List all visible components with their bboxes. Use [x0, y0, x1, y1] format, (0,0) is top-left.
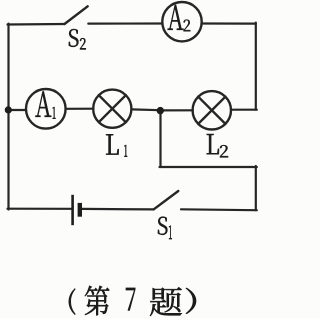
- battery cell long plate: [71, 195, 74, 225]
- label A2 letter A: [168, 5, 184, 30]
- label S2 subscript 2: [80, 38, 86, 49]
- wire right vertical lower: [255, 166, 257, 210]
- caption open parenthesis: [69, 289, 76, 315]
- label A2 subscript 2: [184, 20, 191, 32]
- wire L1 to node B: [131, 108, 160, 111]
- label A1 letter A: [35, 91, 51, 116]
- wire S1 to bottom right corner: [181, 208, 257, 211]
- label L1 subscript 1: [124, 145, 127, 157]
- label L1 letter L: [106, 134, 119, 154]
- node B junction dot: [157, 107, 164, 114]
- label A1 subscript 1: [53, 107, 56, 119]
- caption character Di: [85, 286, 110, 316]
- wire bottom left segment: [8, 208, 72, 210]
- ammeter A2 circle: [162, 2, 201, 41]
- lamp L2: [193, 91, 231, 129]
- caption close parenthesis: [186, 288, 196, 314]
- node A junction dot: [5, 106, 12, 113]
- caption digit 7: [126, 288, 135, 311]
- battery cell short plate: [78, 203, 82, 217]
- wire middle horizontal: [160, 166, 257, 168]
- lamp L1: [93, 90, 131, 128]
- wire L2 to right vertical: [231, 109, 257, 111]
- wire A1 to L1: [66, 108, 94, 110]
- wire node B to L2: [161, 109, 193, 111]
- label S2 letter S: [69, 29, 79, 47]
- label L2 subscript 2: [220, 145, 228, 157]
- wire top middle segment: [88, 22, 162, 24]
- switch S2: [65, 6, 88, 24]
- switch S1: [154, 191, 179, 209]
- label L2 letter L: [207, 134, 219, 154]
- ammeter A1 circle: [26, 89, 66, 129]
- wire right vertical upper: [255, 23, 257, 110]
- label S1 subscript 1: [169, 226, 172, 239]
- wire node B down: [159, 111, 161, 168]
- wire battery to S1: [82, 208, 154, 211]
- caption character Ti: [150, 287, 182, 316]
- wire top right segment: [202, 22, 256, 24]
- wire node A to ammeter A1: [9, 109, 27, 111]
- wire top left segment: [8, 23, 65, 26]
- wire left vertical: [7, 24, 9, 210]
- label S1 letter S: [158, 217, 167, 235]
